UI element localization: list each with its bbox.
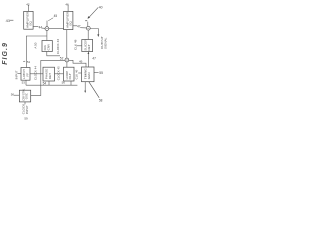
- lead dash from 45: [48, 18, 53, 21]
- mixer circle Q: [65, 58, 69, 62]
- wire A to mixer R: [33, 26, 45, 28]
- arrowhead up into C: [88, 52, 90, 54]
- svg-text:49: 49: [79, 59, 83, 63]
- stub above mixer R: [46, 21, 48, 27]
- svg-text:54: 54: [43, 81, 47, 85]
- wire into oscillator: [14, 94, 19, 96]
- block A (input equalizer): [24, 11, 33, 29]
- svg-text:59: 59: [24, 117, 28, 120]
- svg-text:56: 56: [11, 92, 15, 96]
- svg-text:CLOCK 43: CLOCK 43: [56, 39, 60, 54]
- clock vertical from oscillator: [31, 60, 41, 95]
- oscillator block I: [19, 90, 30, 102]
- output wire from P: [90, 29, 98, 35]
- svg-text:CLK 46: CLK 46: [75, 69, 79, 79]
- wire E bottom: [47, 52, 60, 56]
- stub above block A: [28, 5, 30, 12]
- wire E top from mixer R: [46, 31, 48, 41]
- block D (VCO): [82, 67, 95, 82]
- mixer circle R: [45, 27, 49, 31]
- wire G to H: [55, 73, 64, 75]
- svg-text:EQ: EQ: [28, 20, 32, 25]
- svg-text:DET: DET: [87, 44, 91, 50]
- stub above block B: [67, 5, 69, 12]
- stub above summer P: [87, 22, 89, 27]
- output arrowhead: [97, 34, 99, 37]
- bus stub to G: [48, 81, 50, 85]
- lead arrow to numeral 40: [89, 7, 98, 17]
- svg-text:CLK 48: CLK 48: [74, 39, 78, 50]
- svg-text:FIG.9: FIG.9: [2, 42, 9, 65]
- wire Q right to block D top: [69, 60, 86, 67]
- svg-text:A 50: A 50: [34, 42, 38, 48]
- bus stub to H: [70, 81, 72, 85]
- svg-text:55: 55: [99, 71, 103, 75]
- block C (decision device): [82, 40, 93, 52]
- svg-text:44: 44: [39, 25, 43, 29]
- svg-text:42: 42: [26, 2, 30, 6]
- svg-text:53: 53: [22, 81, 26, 85]
- svg-text:45: 45: [54, 14, 58, 18]
- block E (DAC): [42, 41, 52, 52]
- feedback wire to left column: [26, 36, 47, 67]
- wire Q down into block H: [66, 62, 68, 68]
- wire into block C: [77, 45, 82, 47]
- wire right of D with numeral: [94, 72, 99, 74]
- lead dash of 41: [10, 19, 14, 21]
- block H (latch 3): [64, 67, 75, 81]
- svg-text:INPUT: INPUT: [25, 105, 29, 114]
- tiny mark left of 51: [23, 60, 25, 62]
- block G (latch 2): [43, 67, 55, 81]
- lead line below D: [89, 82, 99, 98]
- svg-text:INPUT: INPUT: [15, 70, 19, 79]
- stub below D with arrowhead: [84, 82, 86, 91]
- bus stub to F: [25, 80, 27, 85]
- svg-text:40: 40: [99, 5, 103, 9]
- clock bus: [26, 84, 77, 86]
- summer circle P: [86, 26, 90, 30]
- svg-text:58: 58: [99, 98, 103, 102]
- svg-text:CLOCK 44: CLOCK 44: [33, 66, 37, 80]
- svg-text:47: 47: [77, 24, 81, 28]
- wire from corner to mixer Q: [41, 59, 65, 61]
- svg-text:51: 51: [27, 60, 31, 64]
- svg-text:DET: DET: [48, 73, 52, 79]
- wire H to D: [78, 72, 81, 74]
- block F (latch 1): [21, 68, 30, 81]
- svg-text:52: 52: [60, 57, 64, 61]
- wire C bottom to block D: [87, 52, 89, 68]
- block B (digital equalizer): [64, 11, 73, 29]
- wire B bottom down to mixer Q: [66, 30, 68, 58]
- arrowhead below D: [84, 91, 86, 93]
- svg-text:46: 46: [65, 2, 69, 6]
- svg-text:CNV: CNV: [46, 43, 50, 50]
- svg-text:SIGNAL: SIGNAL: [104, 37, 108, 49]
- wire P down to block C: [87, 30, 89, 39]
- svg-text:56: 56: [62, 80, 66, 84]
- wire B to summer P: [73, 26, 87, 28]
- svg-text:FF: FF: [25, 73, 29, 77]
- mark left of P stub: [85, 20, 87, 22]
- svg-text:EQ: EQ: [68, 20, 72, 25]
- arrowhead of lead arrow: [88, 16, 91, 19]
- svg-text:47: 47: [92, 57, 96, 61]
- svg-text:CLOCK 45: CLOCK 45: [56, 66, 60, 80]
- wire F to G: [30, 73, 43, 75]
- wire into block F: [18, 72, 21, 74]
- wire R to block B: [49, 27, 64, 29]
- wire oscillator bottom: [24, 102, 26, 104]
- svg-text:FILT: FILT: [68, 73, 72, 79]
- svg-text:GEN: GEN: [87, 72, 91, 79]
- svg-text:OSC: OSC: [25, 93, 29, 99]
